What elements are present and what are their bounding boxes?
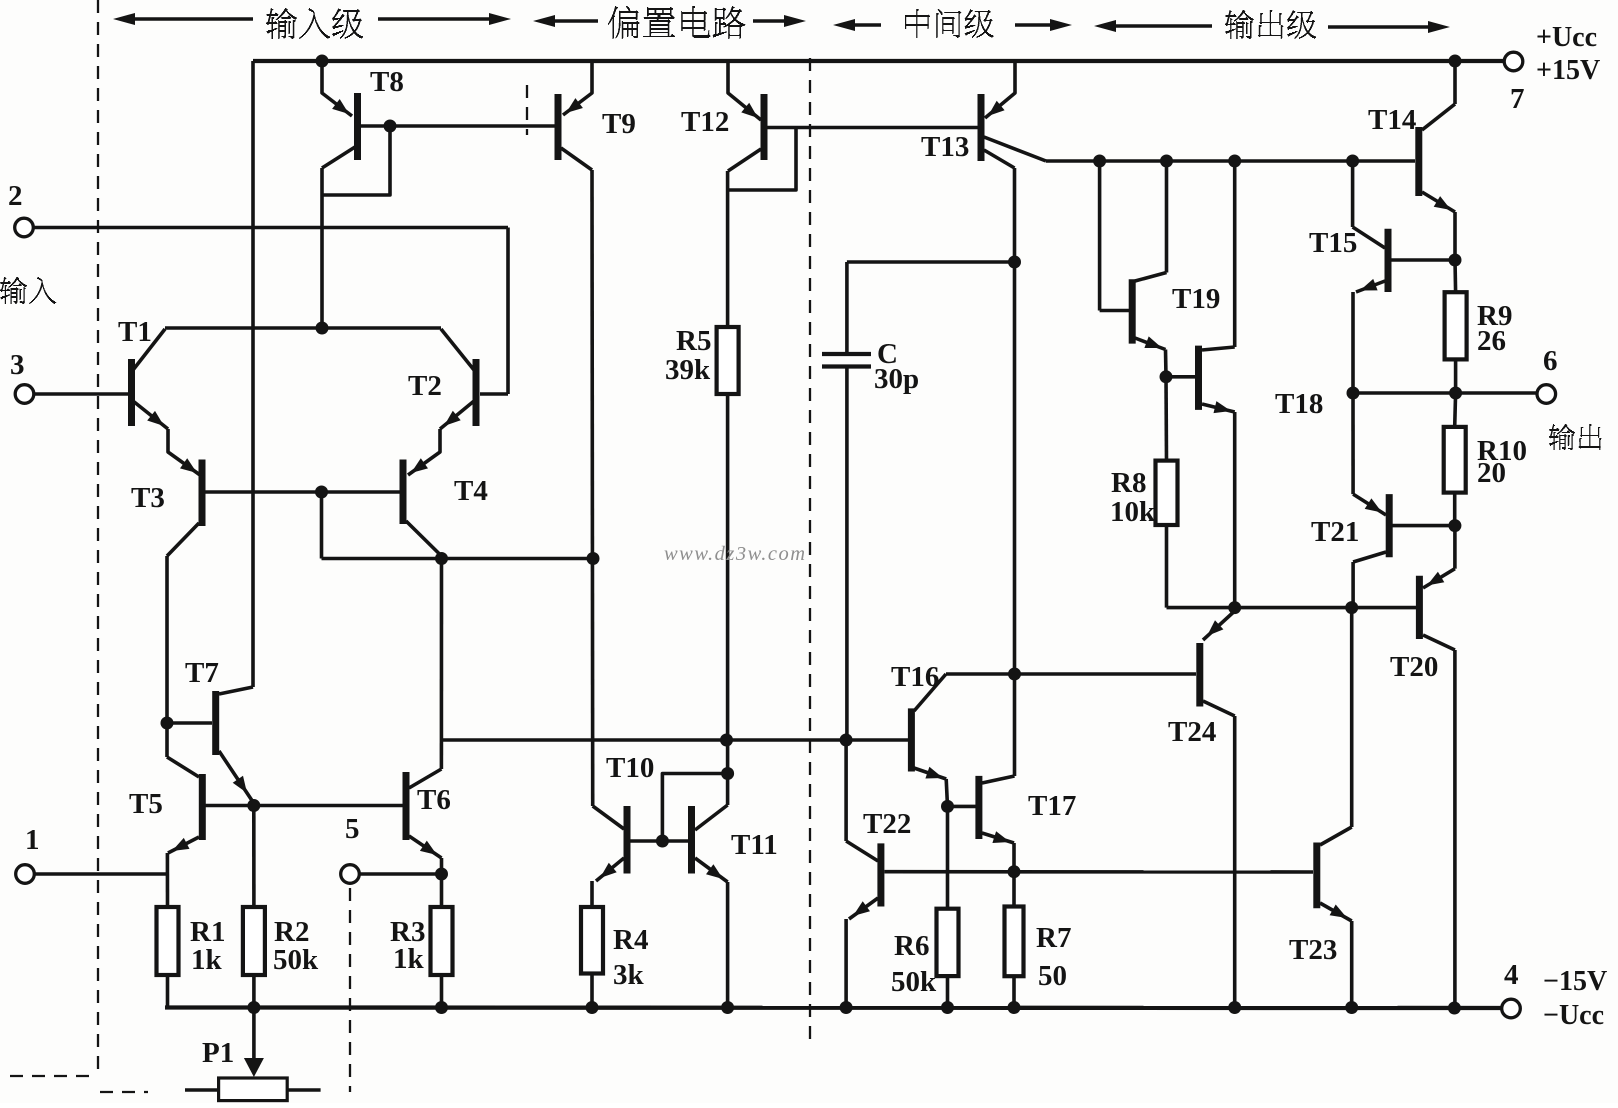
- transistor T21: [1386, 494, 1393, 557]
- T8 collector wire down to T1/T2: [322, 147, 355, 168]
- junction bias line T19 collector: [1160, 155, 1173, 168]
- transistor T19: [1129, 279, 1136, 343]
- svg-text:7: 7: [1510, 83, 1525, 115]
- junction R2 / P1: [247, 1001, 260, 1014]
- dashed boundary bias/middle: [809, 58, 811, 1045]
- transistor T22: [877, 843, 884, 906]
- junction T21 collector: [1345, 601, 1358, 614]
- T5 base wire to T6: [205, 804, 403, 808]
- T19 collector wire: [1165, 161, 1169, 273]
- T5 emitter wire with arrow: [168, 837, 199, 853]
- +Ucc top rail: [253, 59, 1504, 63]
- svg-text:T9: T9: [602, 108, 636, 140]
- resistor R6 50k: [937, 909, 959, 976]
- svg-text:T3: T3: [131, 482, 165, 514]
- svg-text:T5: T5: [129, 788, 163, 820]
- svg-text:6: 6: [1543, 345, 1558, 377]
- transistor T12: [761, 94, 768, 160]
- junction C bottom / T22 collector: [840, 734, 853, 747]
- wire T3/T4 bases down-link: [320, 492, 324, 559]
- svg-text:T21: T21: [1311, 516, 1359, 548]
- T22 emitter wire with arrow: [849, 898, 878, 919]
- wire T6 collector to T16 base: [441, 738, 908, 742]
- transistor T5: [199, 774, 206, 840]
- transistor T17: [975, 776, 982, 839]
- svg-text:50k: 50k: [891, 966, 937, 998]
- junction pin5/R3/T6: [435, 868, 448, 881]
- junction T13/T16/T17 collectors: [1008, 668, 1021, 681]
- junction T22 bottom rail: [840, 1001, 853, 1014]
- T18 base wire: [1167, 375, 1195, 379]
- T13 collector 1 wire down: [984, 150, 1015, 168]
- junction T24 bottom rail: [1228, 1001, 1241, 1014]
- svg-text:T20: T20: [1390, 651, 1438, 683]
- transistor T23: [1313, 843, 1320, 909]
- T12 base wire and diode loop: [767, 126, 978, 130]
- T11 emitter wire with arrow: [695, 858, 728, 882]
- resistor R8 10k: [1156, 461, 1178, 525]
- T4 collector wire: [406, 521, 442, 556]
- svg-text:30p: 30p: [874, 363, 919, 395]
- junction T19 emitter/T18 base/R8: [1160, 370, 1173, 383]
- transistor T16: [908, 708, 915, 771]
- svg-text:T7: T7: [185, 657, 219, 689]
- junction bias line T19 base: [1093, 155, 1106, 168]
- capacitor C 30p: [847, 260, 1015, 264]
- svg-text:5: 5: [345, 813, 360, 845]
- junction R4 bottom rail: [586, 1001, 599, 1014]
- stage label 偏置电路 with arrows: [545, 19, 598, 22]
- T23 emitter wire with arrow: [1320, 903, 1352, 921]
- junction bias line T18 collector: [1228, 155, 1241, 168]
- T7 collector wire to +Ucc rail: [219, 687, 253, 694]
- svg-text:T10: T10: [606, 752, 654, 784]
- T22 collector wire from C node: [844, 740, 848, 841]
- svg-text:R7: R7: [1036, 922, 1071, 954]
- svg-text:39k: 39k: [665, 354, 711, 386]
- T24 emitter wire with arrow: [1233, 608, 1237, 611]
- svg-text:T2: T2: [408, 370, 442, 402]
- T12 emitter from +Ucc with arrow: [728, 61, 761, 120]
- T24 collector wire: [1203, 701, 1235, 716]
- svg-text:T24: T24: [1168, 716, 1216, 748]
- junction bias line T15 collector: [1346, 155, 1359, 168]
- transistor T24: [1196, 643, 1203, 707]
- svg-text:T22: T22: [863, 808, 911, 840]
- wire output node: [1353, 391, 1456, 395]
- T22 base wire to T23: [885, 870, 1314, 874]
- junction T23 bottom rail: [1345, 1001, 1358, 1014]
- svg-text:−Ucc: −Ucc: [1543, 1000, 1604, 1031]
- svg-text:T17: T17: [1028, 790, 1076, 822]
- T3 collector wire: [167, 523, 199, 556]
- T10 emitter wire with arrow: [596, 858, 624, 881]
- svg-text:T12: T12: [681, 106, 729, 138]
- junction T7 base tap: [161, 717, 174, 730]
- wire T4/T9 collector node: [322, 557, 594, 561]
- T9 collector wire down: [561, 148, 592, 170]
- svg-text:3k: 3k: [613, 959, 645, 991]
- transistor T11: [688, 806, 695, 874]
- T2 collector wire: [441, 329, 474, 370]
- transistor T9: [555, 94, 562, 160]
- junction T11 bottom rail: [721, 1001, 734, 1014]
- svg-text:T8: T8: [370, 66, 404, 98]
- terminal 7 +Ucc: [1504, 52, 1523, 71]
- transistor T18: [1195, 346, 1202, 410]
- transistor T20: [1416, 576, 1423, 639]
- junction R7 bottom rail: [1008, 1001, 1021, 1014]
- svg-text:3: 3: [10, 349, 25, 381]
- dashed boundary input stage left: [97, 0, 99, 1075]
- transistor T6: [403, 772, 410, 840]
- svg-text:T4: T4: [454, 475, 488, 507]
- T18 emitter wire with arrow: [1202, 404, 1235, 412]
- svg-text:T15: T15: [1309, 227, 1357, 259]
- wire pin5 to R3 top: [359, 872, 442, 876]
- junction T9 collector: [587, 552, 600, 565]
- svg-text:T13: T13: [921, 131, 969, 163]
- svg-text:−15V: −15V: [1543, 966, 1607, 997]
- svg-text:50k: 50k: [273, 944, 319, 976]
- junction T4 collector: [435, 552, 448, 565]
- resistor R9 26: [1445, 292, 1467, 359]
- T11 collector wire from R5 node: [726, 740, 730, 805]
- junction top rail / T8: [316, 55, 329, 68]
- junction collectors/T8 node: [316, 322, 329, 335]
- T7 emitter wire with arrow: [219, 751, 253, 802]
- T5 collector wire: [167, 757, 199, 777]
- resistor R5 39k: [717, 327, 739, 394]
- T8 base wire to T9: [361, 124, 555, 128]
- T9 emitter from +Ucc with arrow: [563, 61, 592, 115]
- label 输入 (input): [0, 277, 56, 304]
- -Ucc bottom rail: [165, 1005, 1501, 1010]
- T18 collector wire: [1202, 347, 1235, 350]
- svg-text:10k: 10k: [1110, 496, 1156, 528]
- T17 collector wire: [982, 776, 1015, 783]
- svg-text:R6: R6: [894, 930, 929, 962]
- svg-text:R5: R5: [676, 325, 711, 357]
- junction T14 emitter/T15 base/R9: [1449, 254, 1462, 267]
- svg-text:2: 2: [8, 180, 23, 212]
- transistor T7: [212, 691, 219, 755]
- T3 base wire to T4: [205, 490, 400, 494]
- junction T3/T4 base line: [315, 486, 328, 499]
- svg-text:+Ucc: +Ucc: [1536, 22, 1597, 53]
- T21 collector wire: [1353, 552, 1386, 562]
- svg-text:1: 1: [25, 824, 40, 856]
- T8 collector-base loop: [322, 128, 390, 195]
- T2 emitter wire with arrow: [440, 401, 474, 429]
- junction R9/R10/output: [1449, 387, 1462, 400]
- svg-text:1k: 1k: [191, 944, 223, 976]
- stage label 输入级 with arrows: [125, 17, 253, 20]
- transistor T15: [1385, 229, 1392, 292]
- junction R5 / T16 base line: [720, 734, 733, 747]
- stage label 输出级 with arrows: [1106, 24, 1212, 27]
- svg-text:R8: R8: [1111, 467, 1146, 499]
- junction T7 emitter/R2: [247, 799, 260, 812]
- T1 emitter wire with arrow: [133, 401, 168, 429]
- wire R8 to T20 base: [1167, 606, 1417, 610]
- svg-text:www.dz3w.com: www.dz3w.com: [664, 543, 807, 565]
- svg-text:R4: R4: [613, 924, 648, 956]
- junction T20 bottom rail: [1448, 1002, 1461, 1015]
- svg-text:T6: T6: [417, 784, 451, 816]
- wire pin3 to T1 base: [34, 392, 128, 396]
- T6 emitter wire with arrow: [409, 836, 442, 858]
- svg-text:T19: T19: [1172, 283, 1220, 315]
- T6 collector wire: [409, 769, 441, 788]
- junction R6 bottom rail: [941, 1001, 954, 1014]
- transistor T4: [400, 460, 407, 525]
- resistor R4 3k: [581, 907, 603, 974]
- dashed boundary bottom left: [10, 1075, 95, 1077]
- T15 base wire: [1391, 258, 1455, 262]
- junction T8 base/collector loop: [384, 120, 397, 133]
- transistor T14: [1415, 127, 1422, 196]
- svg-text:20: 20: [1477, 457, 1506, 489]
- transistor T3: [199, 460, 206, 527]
- T10 collector wire from T9: [593, 806, 624, 829]
- svg-text:T14: T14: [1368, 104, 1416, 136]
- transistor T1: [128, 359, 135, 426]
- transistor T13: [978, 94, 985, 161]
- T12 collector wire: [728, 149, 761, 171]
- svg-text:50: 50: [1038, 960, 1067, 992]
- T15 collector wire from bias line: [1351, 161, 1355, 227]
- T20 collector wire: [1423, 635, 1455, 650]
- junction R10/T21 base/T20 emitter: [1448, 519, 1461, 532]
- T13 collector 2 wire to output stage: [984, 137, 1046, 161]
- junction T15 emitter/output left node: [1347, 387, 1360, 400]
- svg-text:1k: 1k: [393, 943, 425, 975]
- resistor R10 20: [1444, 427, 1466, 493]
- resistor R2 50k: [243, 907, 265, 975]
- T17 emitter wire with arrow: [982, 833, 1014, 843]
- dashed boundary below terminal 5: [349, 888, 351, 1092]
- svg-text:T18: T18: [1275, 388, 1323, 420]
- T19 base wire from bias line: [1098, 161, 1102, 311]
- T20 emitter wire with arrow: [1453, 526, 1457, 569]
- transistor T2: [473, 359, 480, 426]
- terminal 4 -Ucc: [1502, 999, 1521, 1018]
- T17 base wire: [949, 805, 976, 809]
- junction T18 emitter/T21 collector line: [1228, 601, 1241, 614]
- svg-text:T11: T11: [731, 829, 778, 861]
- label 输出 (output): [1549, 424, 1601, 450]
- svg-text:4: 4: [1504, 959, 1519, 991]
- wire T1-T2 collectors to T8: [165, 326, 441, 330]
- T23 collector wire: [1320, 827, 1352, 845]
- wire pin2 to T2 base: [33, 226, 508, 230]
- T14 collector wire to +Ucc: [1422, 104, 1455, 130]
- T7 base wire: [167, 721, 212, 725]
- stage label 中间级 with arrows: [845, 23, 881, 26]
- svg-text:+15V: +15V: [1536, 55, 1600, 86]
- wire pin1 to T5 emitter line: [34, 872, 167, 876]
- junction T16 emitter/T17 base: [941, 800, 954, 813]
- resistor R3 1k: [431, 907, 453, 975]
- resistor R1 1k: [157, 907, 179, 975]
- junction T10/T11 base loop: [721, 767, 734, 780]
- junction C tap on T13 collector: [1008, 256, 1021, 269]
- T16 collector wire to T24 base line: [914, 674, 946, 711]
- T13 emitter from +Ucc with arrow: [985, 61, 1015, 118]
- T19 emitter wire with arrow: [1135, 338, 1166, 350]
- junction R3 bottom rail: [435, 1001, 448, 1014]
- T8 emitter from +Ucc with arrow: [322, 61, 352, 116]
- T1 collector wire: [133, 329, 165, 370]
- resistor R7 50: [1005, 907, 1024, 977]
- T21 emitter wire with arrow: [1351, 393, 1355, 494]
- junction T17 emitter/R7/base line: [1008, 865, 1021, 878]
- svg-text:T1: T1: [118, 316, 152, 348]
- dashed boundary input/bias: [526, 85, 528, 135]
- svg-text:26: 26: [1477, 325, 1506, 357]
- T16 emitter wire with arrow: [914, 768, 946, 779]
- T10 T11 base wire and loop: [631, 839, 689, 843]
- T21 base wire: [1393, 524, 1455, 528]
- svg-text:P1: P1: [202, 1037, 234, 1069]
- transistor T10: [624, 806, 631, 874]
- svg-text:T23: T23: [1289, 934, 1337, 966]
- transistor T8: [354, 93, 361, 160]
- T14 emitter wire with arrow: [1422, 192, 1455, 212]
- junction top rail / T14: [1449, 55, 1462, 68]
- T15 emitter wire with arrow: [1356, 281, 1385, 292]
